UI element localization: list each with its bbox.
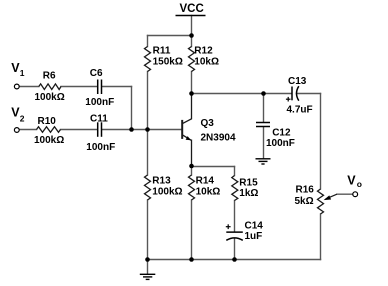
svg-text:10kΩ: 10kΩ xyxy=(196,186,221,197)
svg-text:C11: C11 xyxy=(90,114,108,125)
svg-text:V: V xyxy=(347,173,356,187)
svg-text:4.7uF: 4.7uF xyxy=(287,105,313,116)
svg-text:C13: C13 xyxy=(288,76,307,87)
svg-text:100kΩ: 100kΩ xyxy=(34,135,64,146)
svg-text:R14: R14 xyxy=(196,176,215,187)
svg-text:100kΩ: 100kΩ xyxy=(35,92,65,103)
svg-text:100nF: 100nF xyxy=(85,97,114,108)
svg-text:VCC: VCC xyxy=(180,3,204,15)
svg-text:2N3904: 2N3904 xyxy=(201,133,236,144)
svg-text:C6: C6 xyxy=(90,68,103,79)
svg-text:2: 2 xyxy=(20,114,25,124)
svg-text:100kΩ: 100kΩ xyxy=(152,186,182,197)
svg-text:1: 1 xyxy=(20,68,25,78)
svg-text:o: o xyxy=(357,179,362,189)
svg-text:100nF: 100nF xyxy=(266,138,295,149)
svg-text:10kΩ: 10kΩ xyxy=(194,56,219,67)
svg-text:C12: C12 xyxy=(272,127,291,138)
svg-text:R10: R10 xyxy=(38,116,57,127)
svg-text:R11: R11 xyxy=(153,46,171,57)
svg-text:1uF: 1uF xyxy=(245,231,263,242)
svg-text:1kΩ: 1kΩ xyxy=(239,188,258,199)
svg-text:150kΩ: 150kΩ xyxy=(153,56,183,67)
svg-text:5kΩ: 5kΩ xyxy=(295,196,314,207)
svg-text:Q3: Q3 xyxy=(201,118,215,129)
svg-text:100nF: 100nF xyxy=(86,142,115,153)
svg-text:R12: R12 xyxy=(194,46,213,57)
svg-text:R13: R13 xyxy=(152,176,171,187)
svg-text:R15: R15 xyxy=(239,177,258,188)
svg-text:R6: R6 xyxy=(43,70,56,81)
svg-text:R16: R16 xyxy=(296,184,315,195)
